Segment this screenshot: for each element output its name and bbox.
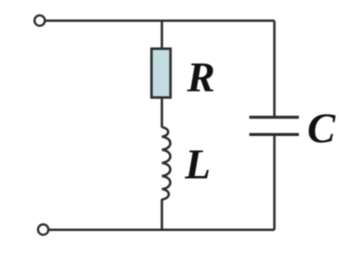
resistor R body xyxy=(152,49,171,98)
terminal top-left xyxy=(35,15,45,25)
svg-text:C: C xyxy=(307,107,336,153)
wire right branch upper xyxy=(273,21,275,116)
terminal bottom-left xyxy=(38,224,48,234)
svg-text:R: R xyxy=(186,56,215,102)
inductor L coil xyxy=(162,127,170,199)
capacitor C top plate xyxy=(249,116,299,119)
wire bottom horizontal xyxy=(49,229,275,231)
svg-text:L: L xyxy=(184,143,211,189)
wire right branch lower xyxy=(273,136,275,230)
wire middle branch between R and L xyxy=(161,98,163,128)
wire top horizontal xyxy=(46,20,275,22)
wire middle branch bottom xyxy=(161,199,163,230)
capacitor C bottom plate xyxy=(249,133,299,136)
wire middle branch top xyxy=(161,21,163,49)
